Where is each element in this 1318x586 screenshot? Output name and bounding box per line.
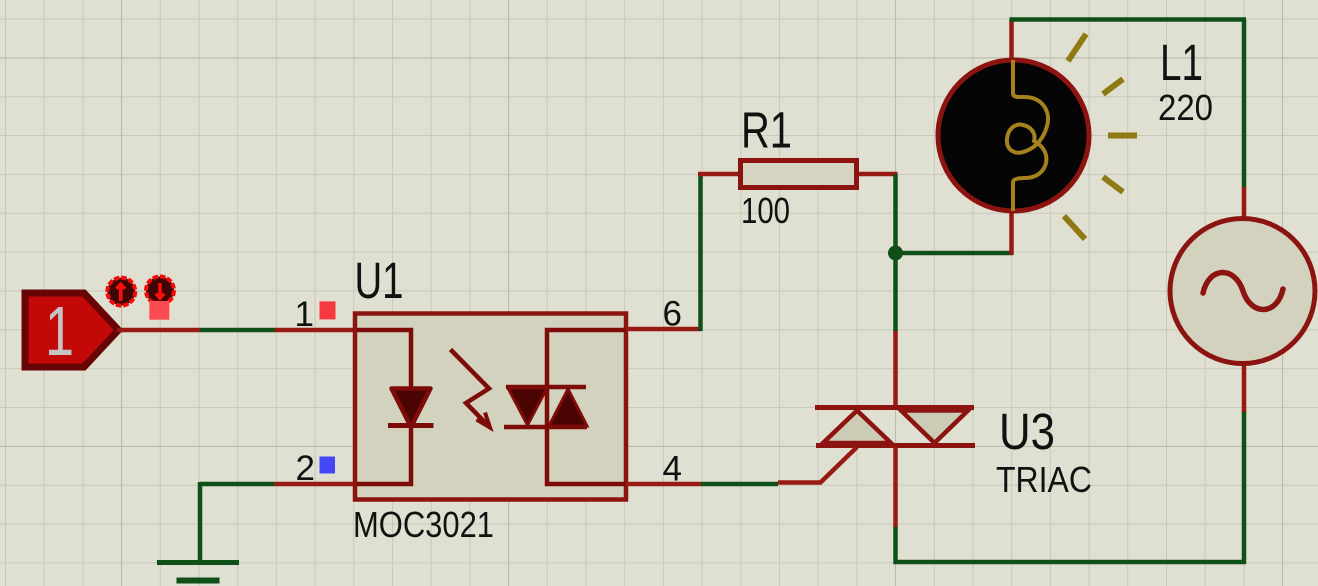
wire <box>698 174 703 331</box>
wire <box>200 482 274 487</box>
svg-text:1: 1 <box>45 292 74 370</box>
triac bottom bar <box>816 443 975 448</box>
node junction <box>888 246 903 261</box>
U1 internal LED cathode bar <box>388 423 434 428</box>
U1 light arrow <box>451 350 490 426</box>
terminal 1 <box>25 292 119 370</box>
wire <box>893 174 898 333</box>
svg-text:U3: U3 <box>999 403 1055 460</box>
transistor U3 (triac) top bar <box>815 405 974 410</box>
AC source sine <box>1203 272 1283 309</box>
pin 2 state square (blue) <box>320 457 336 474</box>
svg-text:TRIAC: TRIAC <box>996 459 1092 500</box>
op-amp U1 (optocoupler MOC3021) body <box>355 314 626 500</box>
lamp L1 body <box>938 60 1089 211</box>
AC source V1 body <box>1170 219 1315 364</box>
svg-text:2: 2 <box>296 449 315 488</box>
svg-text:100: 100 <box>741 190 790 231</box>
svg-text:MOC3021: MOC3021 <box>353 504 494 545</box>
ground <box>157 563 239 581</box>
wire <box>200 328 275 333</box>
wire lamp bottom <box>896 251 1014 256</box>
U1 internal LED D <box>392 389 431 428</box>
lamp ray 1 <box>1068 34 1086 61</box>
U1 internal phototriac top bar <box>506 385 586 390</box>
lamp ray 5 <box>1064 216 1085 239</box>
wire <box>701 482 778 487</box>
AC source top pin <box>1242 187 1247 219</box>
probe marker down-arrow <box>146 277 174 305</box>
wire bottom <box>894 560 1247 565</box>
svg-text:4: 4 <box>663 450 682 489</box>
lamp ray 4 <box>1103 177 1123 192</box>
U1 internal LED cathode wire <box>357 427 411 484</box>
triac triangle right <box>901 411 968 444</box>
U1 internal phototriac bottom bar <box>504 425 587 430</box>
U1 pin 2 <box>274 482 355 487</box>
svg-text:R1: R1 <box>741 102 792 159</box>
U1 pin 1 <box>275 328 355 333</box>
U1 internal phototriac wires <box>547 330 626 484</box>
svg-text:L1: L1 <box>1160 34 1203 91</box>
lamp filament <box>1007 60 1048 211</box>
wire <box>198 482 203 562</box>
resistor R1 lead left <box>698 172 740 177</box>
wire right riser <box>1242 410 1247 564</box>
lamp L1 bottom pin <box>1009 211 1014 255</box>
wire <box>893 527 898 564</box>
triac gate lead <box>778 447 857 483</box>
terminal pin <box>117 328 200 333</box>
svg-text:1: 1 <box>295 295 314 334</box>
probe marker up-arrow <box>107 278 135 306</box>
wire <box>1242 20 1247 190</box>
pin 1 state square (red) <box>320 301 336 319</box>
U1 internal phototriac triangle right <box>549 389 587 426</box>
svg-text:6: 6 <box>663 295 682 334</box>
svg-text:220: 220 <box>1158 87 1213 128</box>
svg-text:U1: U1 <box>355 252 404 309</box>
U1 pin 4 <box>626 482 701 487</box>
triac U3 top pin <box>893 331 898 409</box>
U1 internal phototriac triangle left <box>508 388 547 425</box>
triac bottom pin <box>893 446 898 528</box>
wire top <box>1010 17 1247 22</box>
lamp ray 3 <box>1108 133 1137 139</box>
U1 pin 6 <box>626 327 701 332</box>
resistor R1 body <box>741 161 857 188</box>
lamp ray 2 <box>1103 79 1123 94</box>
lamp L1 top pin <box>1009 20 1014 60</box>
U1 internal LED anode wire <box>357 330 411 389</box>
triac triangle left <box>823 411 891 444</box>
terminal state square (red) <box>149 301 169 320</box>
AC source bottom pin <box>1242 364 1247 412</box>
resistor R1 lead right <box>857 172 898 177</box>
